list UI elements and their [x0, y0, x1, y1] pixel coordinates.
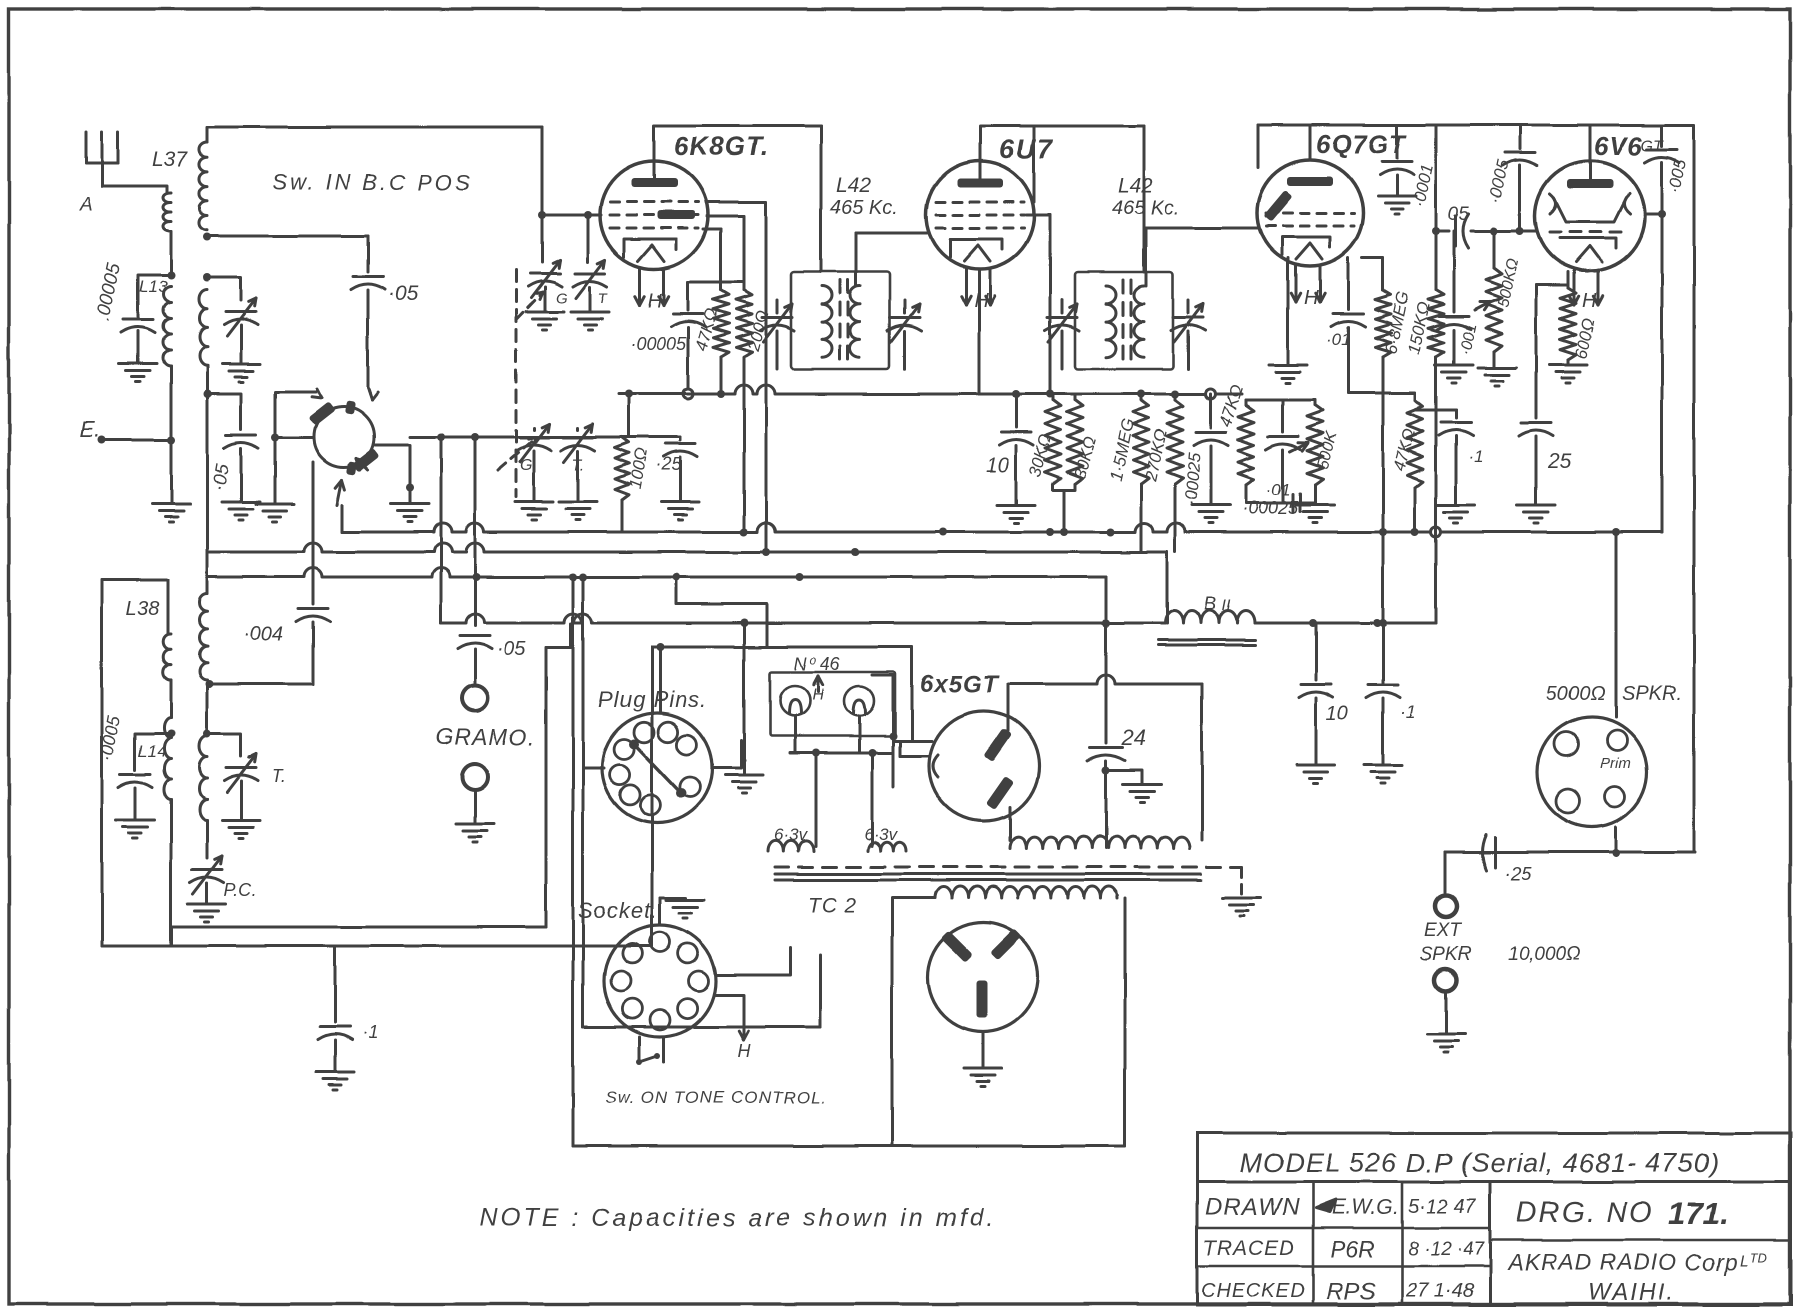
svg-text:05: 05: [1448, 204, 1470, 225]
svg-text:10: 10: [986, 454, 1010, 477]
svg-text:E.: E.: [80, 417, 101, 442]
svg-text:NOTE : Capacities are shown: NOTE : Capacities are shown in mfd.: [480, 1204, 996, 1232]
svg-text:E.W.G.: E.W.G.: [1332, 1196, 1399, 1219]
svg-text:27 1·48: 27 1·48: [1405, 1280, 1474, 1302]
svg-text:30KΩ: 30KΩ: [1026, 432, 1056, 479]
svg-text:GRAMO.: GRAMO.: [436, 724, 535, 750]
svg-text:6V6: 6V6: [1594, 131, 1643, 161]
svg-text:H: H: [738, 1041, 752, 1061]
svg-text:L42: L42: [836, 174, 871, 197]
svg-text:DRAWN: DRAWN: [1205, 1194, 1300, 1221]
svg-text:10,000Ω: 10,000Ω: [1508, 944, 1581, 965]
svg-text:Sw. IN B.C POS: Sw. IN B.C POS: [272, 170, 473, 195]
svg-text:L14: L14: [138, 742, 166, 761]
svg-text:TRACED: TRACED: [1203, 1237, 1295, 1260]
svg-text:AKRAD RADIO Corp: AKRAD RADIO Corp: [1506, 1249, 1739, 1275]
svg-text:P6R: P6R: [1330, 1236, 1375, 1262]
svg-text:II: II: [1222, 597, 1231, 614]
svg-text:171.: 171.: [1668, 1196, 1728, 1231]
svg-text:·1: ·1: [1400, 702, 1416, 722]
svg-text:T.: T.: [272, 766, 286, 786]
svg-text:·00005: ·00005: [630, 334, 687, 354]
svg-text:·004: ·004: [243, 623, 283, 645]
svg-text:Sw. ON TONE CONTROL.: Sw. ON TONE CONTROL.: [605, 1088, 827, 1107]
svg-text:L37: L37: [152, 148, 188, 171]
svg-text:465 Kc.: 465 Kc.: [1112, 197, 1180, 219]
svg-text:6U7: 6U7: [999, 134, 1055, 164]
svg-text:·0001: ·0001: [1409, 162, 1437, 208]
svg-text:8 ·12 ·47: 8 ·12 ·47: [1408, 1239, 1485, 1260]
svg-text:G: G: [556, 290, 568, 307]
svg-text:·0005: ·0005: [96, 713, 124, 763]
svg-text:A: A: [79, 194, 93, 215]
svg-text:T: T: [598, 290, 609, 307]
svg-text:o: o: [810, 653, 817, 667]
svg-text:270KΩ: 270KΩ: [1141, 427, 1171, 483]
svg-text:6Q7GT: 6Q7GT: [1316, 129, 1407, 159]
svg-text:·1: ·1: [1468, 447, 1483, 466]
svg-text:·01: ·01: [1266, 480, 1291, 499]
svg-text:·00025: ·00025: [1242, 498, 1299, 518]
svg-text:·01: ·01: [1326, 330, 1351, 349]
svg-text:H: H: [648, 290, 663, 312]
svg-text:6x5GT: 6x5GT: [920, 671, 1000, 698]
svg-text:·25: ·25: [1504, 864, 1532, 885]
svg-text:·001: ·001: [1457, 322, 1480, 357]
svg-text:SPKR.: SPKR.: [1622, 683, 1682, 705]
svg-text:TD: TD: [1750, 1250, 1767, 1265]
svg-text:WAIHI.: WAIHI.: [1588, 1279, 1676, 1306]
svg-text:RPS: RPS: [1326, 1278, 1375, 1305]
svg-text:·005: ·005: [1664, 157, 1690, 195]
svg-text:.00005: .00005: [92, 261, 125, 323]
svg-text:H: H: [974, 290, 989, 312]
svg-text:5·12 47: 5·12 47: [1408, 1196, 1477, 1218]
svg-text:MODEL 526 D.P (Serial, 468: MODEL 526 D.P (Serial, 4681- 4750): [1240, 1148, 1720, 1178]
svg-text:G.: G.: [520, 457, 537, 474]
svg-text:10: 10: [1326, 703, 1348, 725]
svg-text:L: L: [1740, 1253, 1749, 1270]
svg-text:H: H: [1304, 287, 1319, 309]
svg-text:H: H: [1582, 290, 1597, 312]
svg-text:DRG. NO: DRG. NO: [1516, 1197, 1654, 1229]
svg-text:L42: L42: [1118, 174, 1153, 197]
svg-text:·05: ·05: [497, 638, 527, 660]
svg-text:Prim: Prim: [1600, 755, 1631, 772]
svg-text:5000Ω: 5000Ω: [1546, 683, 1606, 705]
svg-text:CHECKED: CHECKED: [1201, 1280, 1306, 1302]
svg-text:6K8GT.: 6K8GT.: [674, 131, 769, 161]
svg-text:SPKR: SPKR: [1420, 944, 1472, 965]
svg-text:465 Kc.: 465 Kc.: [830, 197, 898, 219]
svg-text:47KΩ: 47KΩ: [1216, 382, 1247, 429]
svg-text:·25: ·25: [655, 454, 682, 474]
svg-text:25: 25: [1547, 450, 1572, 473]
svg-text:Socket.: Socket.: [578, 898, 658, 923]
svg-text:B: B: [1204, 594, 1217, 615]
svg-text:T.: T.: [572, 457, 585, 474]
svg-text:TC 2: TC 2: [808, 894, 858, 917]
svg-text:·05: ·05: [388, 282, 419, 305]
svg-text:Plug Pins.: Plug Pins.: [598, 687, 707, 712]
svg-text:L38: L38: [126, 598, 159, 620]
svg-text:EXT: EXT: [1424, 920, 1462, 941]
svg-text:·00025: ·00025: [1181, 451, 1205, 506]
svg-text:500KΩ: 500KΩ: [1495, 257, 1522, 309]
svg-text:·0005: ·0005: [1485, 158, 1513, 205]
svg-text:24: 24: [1121, 725, 1146, 750]
svg-text:·1: ·1: [362, 1022, 378, 1042]
svg-text:6·3v: 6·3v: [864, 825, 899, 844]
svg-text:P.C.: P.C.: [224, 880, 257, 900]
svg-text:30KΩ: 30KΩ: [1071, 434, 1101, 481]
svg-text:·05: ·05: [208, 462, 234, 493]
